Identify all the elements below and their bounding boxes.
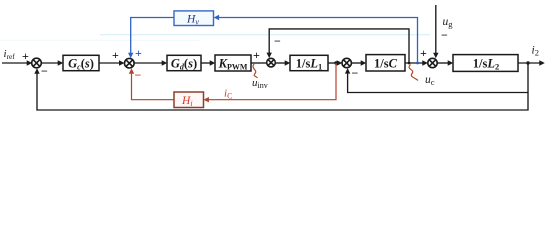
node u_g source arrow	[435, 5, 437, 55]
svg-text:−: −	[41, 64, 48, 78]
wire 1/sL1 to junction 5 with node	[328, 62, 338, 64]
summing junction 5	[342, 58, 351, 67]
wire inner feedback i2 to junction 5	[348, 63, 528, 93]
svg-text:−: −	[135, 68, 142, 82]
node u_inv callout squiggle	[253, 64, 257, 78]
summing junction 1	[32, 58, 42, 68]
svg-text:Gc(s): Gc(s)	[68, 56, 94, 71]
svg-text:−: −	[352, 66, 359, 80]
svg-text:1/sC: 1/sC	[374, 56, 398, 70]
block 1/sC	[366, 55, 405, 71]
block Hv	[174, 11, 214, 27]
svg-text:+: +	[22, 49, 29, 63]
wire junction6 to 1/sL2	[437, 62, 448, 64]
wire 1/sC to junction 6	[405, 62, 423, 64]
node u_c callout squiggle	[409, 65, 418, 81]
wire uc feedforward rectangle to junction 4	[269, 29, 409, 63]
block 1/sL2	[453, 55, 518, 72]
wire Gc to junction 2	[99, 62, 120, 64]
wire junction2 to Gd	[134, 62, 162, 64]
wire junction1 to Gc	[41, 62, 58, 64]
block Kpwm	[215, 55, 251, 71]
wire i_ref input	[2, 62, 28, 64]
wire junction5 to 1/sC	[351, 62, 361, 64]
block Gc(s)	[63, 55, 99, 71]
wire Hv blue feedback path	[131, 18, 418, 64]
ghost scan line	[0, 35, 430, 40]
wire Kpwm to junction 4	[251, 62, 267, 64]
svg-text:+: +	[253, 48, 260, 62]
svg-text:+: +	[112, 48, 119, 62]
wire outer feedback i2 to junction 1	[37, 71, 528, 111]
wire red iC feedback path	[132, 63, 337, 100]
block Gd(s)	[167, 55, 201, 71]
svg-text:−: −	[441, 28, 448, 42]
block 1/sL1	[290, 55, 328, 71]
wire junction4 to 1/sL1	[276, 62, 286, 64]
svg-text:Gd(s): Gd(s)	[171, 56, 197, 71]
svg-text:+: +	[135, 46, 142, 60]
wire output i2	[518, 62, 540, 64]
summing junction 6	[428, 58, 437, 67]
svg-text:−: −	[274, 34, 281, 48]
wire Gd to Kpwm	[201, 62, 211, 64]
summing junction 2	[125, 58, 135, 68]
block Hi	[174, 92, 204, 108]
svg-text:+: +	[420, 46, 427, 60]
summing junction 4	[267, 58, 276, 67]
